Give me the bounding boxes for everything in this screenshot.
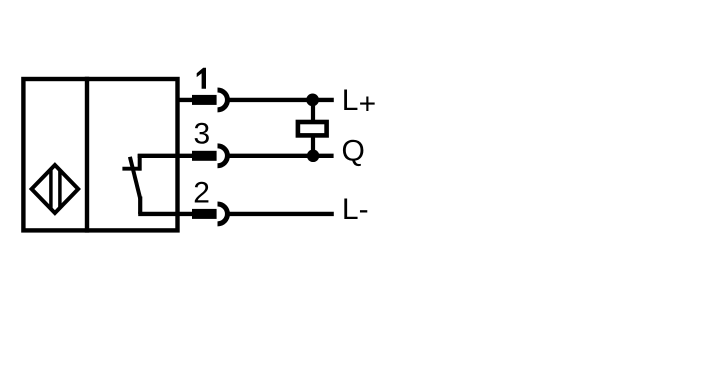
pin 2 connector plug	[192, 209, 217, 219]
pin 1 wire (box edge to connector)	[176, 98, 194, 102]
pin 1 connector plug	[192, 95, 217, 105]
pin 3 connector plug	[192, 151, 217, 161]
load resistor	[298, 122, 327, 135]
inductive sensor symbol (diamond)	[32, 163, 79, 215]
switch: moving lever	[130, 157, 140, 199]
svg-text:3: 3	[193, 118, 210, 151]
load branch vertical wire	[311, 100, 315, 156]
svg-text:2: 2	[193, 177, 210, 210]
svg-text:+: +	[359, 87, 377, 120]
junction node on L+	[306, 94, 319, 107]
sensor body outline	[23, 79, 177, 230]
Q wire	[229, 154, 334, 158]
svg-text:L: L	[342, 84, 359, 117]
L+ wire	[229, 98, 334, 102]
switch: contact tick	[122, 167, 141, 171]
pin 2 connector socket arc	[218, 204, 228, 224]
junction node on Q	[307, 150, 320, 163]
switch: fixed contact stub	[138, 154, 142, 171]
sensor internal divider	[85, 77, 89, 233]
pin 2 wire (switch to connector)	[138, 212, 193, 216]
pin number 1	[197, 68, 206, 89]
svg-text:L-: L-	[342, 193, 369, 226]
svg-text:Q: Q	[342, 135, 365, 168]
pin 3 connector socket arc	[218, 146, 228, 166]
pin 3 wire (switch to connector)	[138, 154, 193, 158]
switch: lever to pin-2 vertical	[138, 197, 142, 214]
pin 1 connector socket arc	[218, 90, 228, 110]
L- wire	[229, 212, 334, 216]
